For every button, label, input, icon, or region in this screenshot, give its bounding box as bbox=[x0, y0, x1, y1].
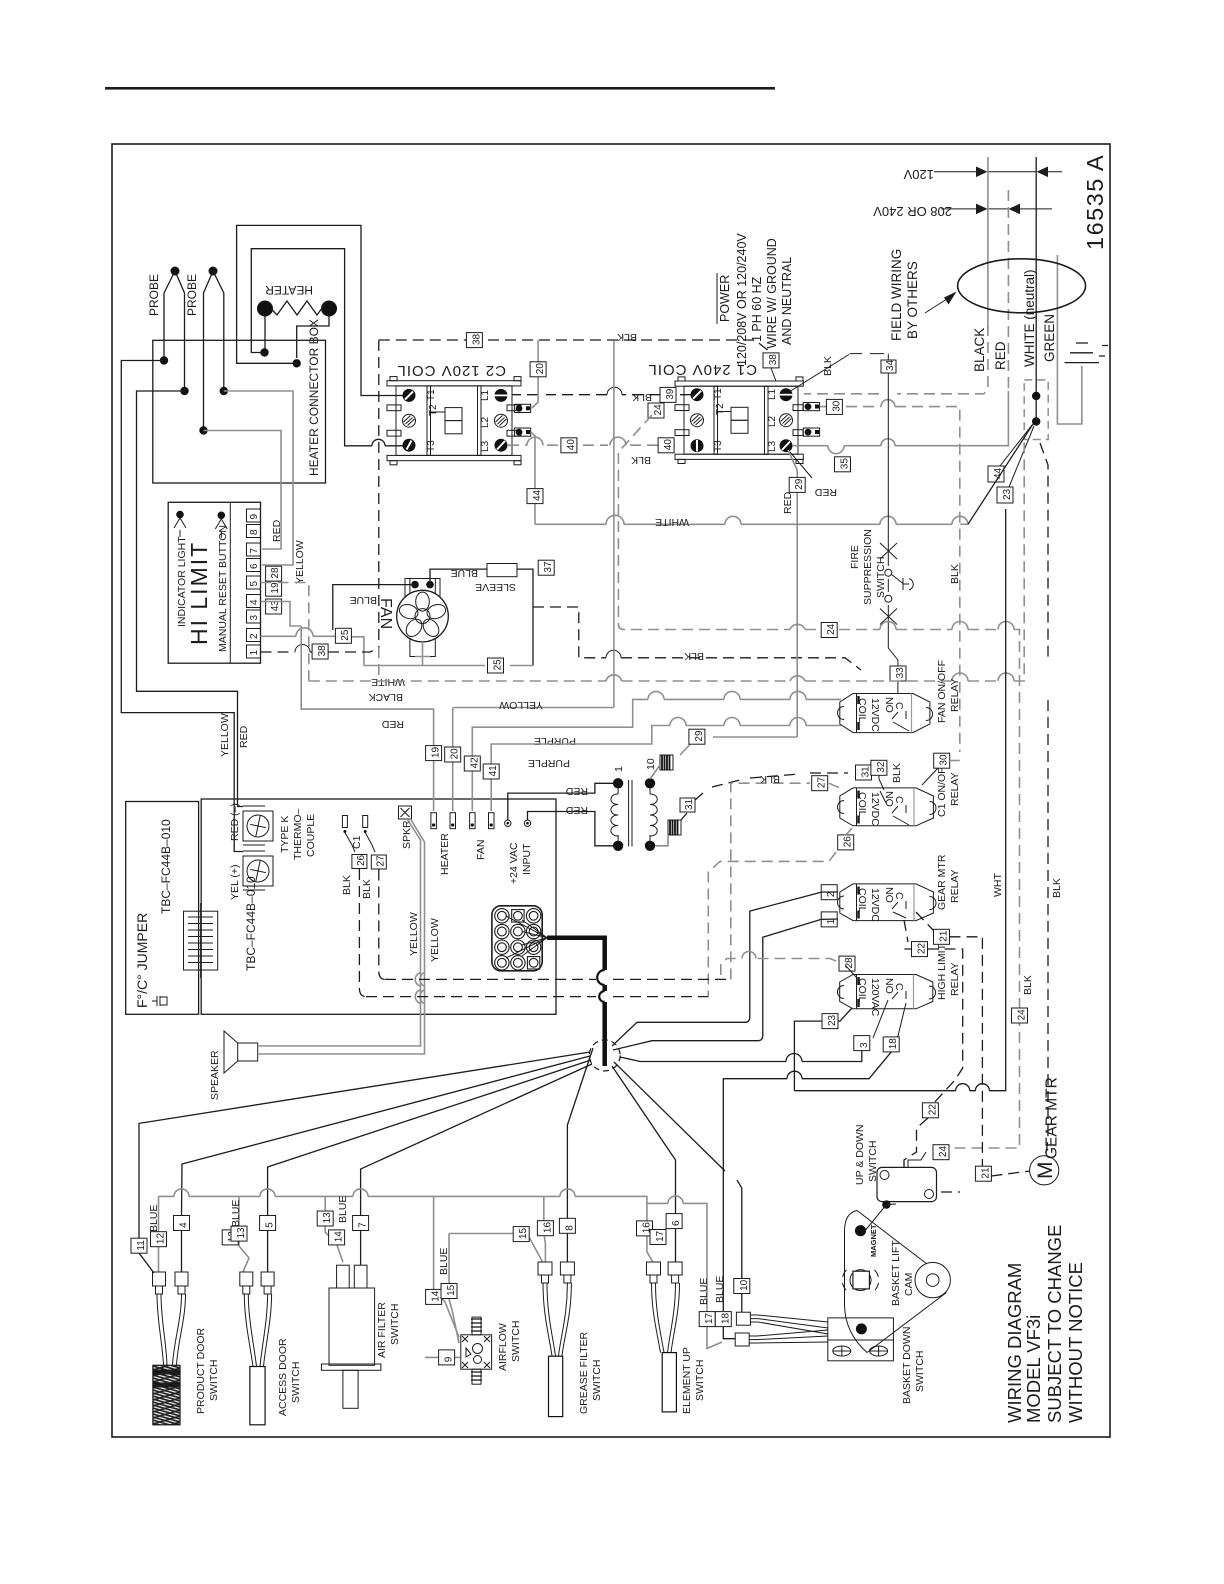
svg-text:SPEAKER: SPEAKER bbox=[209, 1050, 221, 1100]
node probe1 left junction bbox=[160, 356, 168, 364]
wire 44 from C2 coil B down to white run bbox=[531, 432, 535, 524]
svg-text:26: 26 bbox=[843, 836, 854, 848]
svg-text:7: 7 bbox=[249, 548, 260, 554]
title rule bbox=[105, 87, 775, 90]
svg-text:10: 10 bbox=[739, 1279, 750, 1291]
svg-text:RELAY: RELAY bbox=[949, 678, 961, 712]
tag 28 bbox=[266, 566, 282, 581]
wire red 24vac A to transformer bbox=[508, 783, 613, 820]
title block text bbox=[1004, 1225, 1086, 1423]
tag 38 at hi limit bbox=[312, 644, 328, 659]
svg-text:9: 9 bbox=[249, 514, 260, 520]
grease filter switch bbox=[537, 1196, 603, 1416]
wire field white vertical bbox=[1035, 157, 1037, 396]
wire 30 dashed from C1 coil A to BLK vertical bbox=[820, 407, 960, 752]
connector fan-in lines bbox=[506, 916, 547, 958]
svg-text:35: 35 bbox=[840, 458, 851, 470]
tag 41 bbox=[483, 764, 499, 779]
contactor C2 120V COIL bbox=[387, 362, 531, 465]
svg-text:FIRE: FIRE bbox=[849, 545, 861, 569]
wire fan blue right through sleeve to 37 bbox=[430, 569, 533, 665]
ray wire 8 bbox=[567, 1048, 593, 1218]
probe P1 bbox=[147, 267, 185, 392]
node neutral dot 2 bbox=[1032, 417, 1040, 425]
contactor C1 240V COIL bbox=[647, 361, 819, 464]
svg-text:WHITE (neutral): WHITE (neutral) bbox=[1022, 269, 1037, 367]
ray wire 5 bbox=[268, 1060, 591, 1215]
fuse block A bbox=[650, 755, 673, 779]
svg-text:FAN: FAN bbox=[377, 598, 394, 629]
wire 3 to hub run bbox=[802, 1051, 862, 1062]
reset button symbol bbox=[218, 512, 226, 520]
node heater-left junction bbox=[260, 348, 268, 356]
air filter switch bbox=[317, 1196, 401, 1409]
svg-text:SWITCH: SWITCH bbox=[914, 1351, 926, 1392]
svg-text:30: 30 bbox=[939, 754, 950, 766]
svg-text:FAN ON/OFF: FAN ON/OFF bbox=[936, 660, 948, 723]
svg-text:BLUE: BLUE bbox=[698, 1278, 710, 1305]
svg-text:SUPPRESSION: SUPPRESSION bbox=[862, 529, 874, 605]
wire 32 to relay NO bbox=[879, 775, 884, 790]
wire 28 into coil bbox=[846, 966, 856, 977]
svg-text:SWITCH: SWITCH bbox=[208, 1360, 220, 1401]
svg-text:18: 18 bbox=[888, 1038, 899, 1050]
svg-text:ELEMENT UP: ELEMENT UP bbox=[681, 1347, 693, 1414]
svg-text:17: 17 bbox=[655, 1230, 666, 1242]
wire 19 pin column bbox=[433, 761, 435, 811]
svg-text:29: 29 bbox=[694, 730, 705, 742]
terminal 3 bbox=[247, 610, 261, 623]
svg-text:BY OTHERS: BY OTHERS bbox=[905, 261, 920, 339]
ray wire 4 bbox=[182, 1056, 591, 1215]
svg-text:4 WIRE W/ GROUND: 4 WIRE W/ GROUND bbox=[765, 238, 779, 359]
svg-text:WHT: WHT bbox=[992, 873, 1004, 897]
svg-text:3: 3 bbox=[249, 615, 260, 621]
svg-text:POWER: POWER bbox=[718, 275, 732, 322]
thick harness wire bbox=[547, 938, 605, 1066]
controller board box bbox=[201, 799, 556, 1014]
svg-text:AIR FILTER: AIR FILTER bbox=[376, 1302, 388, 1358]
svg-text:12VDC: 12VDC bbox=[869, 888, 881, 922]
wire 2 from hub bbox=[745, 892, 838, 1022]
tag 20 bbox=[445, 747, 461, 762]
svg-text:L2: L2 bbox=[767, 415, 778, 427]
tag 38 to C1 T1 leader bbox=[763, 353, 779, 368]
svg-text:C: C bbox=[893, 702, 905, 710]
svg-text:24: 24 bbox=[1017, 1009, 1028, 1021]
svg-text:28: 28 bbox=[844, 957, 855, 969]
svg-text:33: 33 bbox=[895, 667, 906, 679]
svg-text:13: 13 bbox=[236, 1227, 247, 1239]
svg-text:SWITCH: SWITCH bbox=[875, 557, 887, 598]
svg-text:RED: RED bbox=[782, 491, 794, 514]
ray wire 2 bbox=[612, 1022, 745, 1046]
svg-text:PROBE: PROBE bbox=[147, 274, 161, 316]
terminal 4 bbox=[247, 595, 261, 608]
svg-text:BLK: BLK bbox=[760, 773, 780, 785]
tag 2 at gear relay bbox=[821, 885, 837, 900]
wire heater left leg to inner loop junction bbox=[264, 316, 266, 353]
tag 25 at hi limit bbox=[335, 628, 351, 643]
svg-text:40: 40 bbox=[566, 439, 577, 451]
switch C1 contacts on board bbox=[342, 816, 375, 853]
wire dashed bus 958 to tag 28 bbox=[721, 959, 841, 976]
svg-text:14: 14 bbox=[334, 1231, 345, 1243]
svg-text:28: 28 bbox=[270, 567, 281, 579]
svg-text:BLK: BLK bbox=[631, 454, 651, 466]
svg-text:38: 38 bbox=[471, 333, 482, 345]
svg-text:34: 34 bbox=[885, 359, 896, 371]
svg-text:F°/C° JUMPER: F°/C° JUMPER bbox=[134, 913, 150, 1008]
svg-text:30: 30 bbox=[831, 400, 842, 412]
svg-text:SWITCH: SWITCH bbox=[591, 1360, 603, 1401]
svg-text:6: 6 bbox=[671, 1220, 682, 1226]
svg-text:27: 27 bbox=[375, 855, 386, 867]
svg-text:BLK: BLK bbox=[1022, 975, 1034, 995]
svg-text:YELLOW: YELLOW bbox=[294, 540, 306, 584]
svg-text:RED: RED bbox=[565, 804, 588, 816]
node neutral dot 1 bbox=[1032, 392, 1040, 400]
label +24 VAC INPUT bbox=[508, 842, 533, 884]
field wiring ellipse bbox=[958, 259, 1086, 313]
wire C2 coil A up to bus38 tag 20 bbox=[532, 340, 538, 408]
tag 21 at motor bbox=[975, 1166, 991, 1181]
svg-text:BLK: BLK bbox=[632, 391, 652, 403]
basket connector 2 bbox=[735, 1330, 828, 1346]
tag 21 at gear relay bbox=[934, 929, 950, 944]
tag 18 at high limit relay bbox=[883, 1037, 899, 1052]
svg-text:12VDC: 12VDC bbox=[869, 698, 881, 732]
svg-text:44: 44 bbox=[532, 489, 543, 501]
speaker bbox=[209, 1031, 258, 1100]
tag 43 bbox=[266, 599, 282, 614]
pin spade C1 coil B bbox=[803, 428, 819, 436]
wire heater right leg bbox=[297, 316, 329, 358]
tag 27 at C1 relay bbox=[812, 776, 828, 791]
svg-text:SWITCH: SWITCH bbox=[389, 1304, 401, 1345]
svg-text:SUBJECT TO CHANGE: SUBJECT TO CHANGE bbox=[1044, 1225, 1065, 1423]
svg-text:31: 31 bbox=[684, 798, 695, 810]
svg-text:RED: RED bbox=[993, 341, 1008, 370]
label 208 OR 240V with arrows bbox=[873, 204, 1052, 219]
basket connector 1 bbox=[736, 1312, 828, 1334]
svg-text:L3: L3 bbox=[480, 440, 491, 452]
svg-text:GREASE FILTER: GREASE FILTER bbox=[578, 1332, 590, 1414]
tag 27 bbox=[371, 855, 386, 869]
svg-text:39: 39 bbox=[665, 388, 676, 400]
svg-text:BASKET DOWN: BASKET DOWN bbox=[901, 1327, 913, 1404]
svg-text:29: 29 bbox=[794, 478, 805, 490]
svg-text:BLUE: BLUE bbox=[714, 1276, 726, 1303]
svg-text:PRODUCT DOOR: PRODUCT DOOR bbox=[195, 1327, 207, 1414]
svg-text:RELAY: RELAY bbox=[949, 962, 961, 996]
tag 29 at transformer bbox=[689, 729, 705, 744]
svg-text:BLK: BLK bbox=[1051, 878, 1063, 898]
connector 12pin bbox=[492, 906, 547, 971]
svg-text:16535: 16535 bbox=[1082, 177, 1108, 250]
access door switch bbox=[222, 1196, 302, 1424]
wire dashed from black field to C1 bbox=[804, 325, 988, 394]
resistor SLEEVE bbox=[475, 564, 517, 594]
tag 17 on wire to basket bbox=[699, 1312, 715, 1327]
tag 22 at gear relay bbox=[912, 942, 928, 957]
wire probe2 left to HI LIMIT red run bbox=[204, 431, 282, 550]
svg-text:24: 24 bbox=[653, 404, 664, 416]
ray wire 7 bbox=[361, 1064, 592, 1215]
element up switch bbox=[637, 1196, 723, 1414]
svg-text:COIL: COIL bbox=[856, 792, 868, 817]
svg-text:9: 9 bbox=[444, 1356, 455, 1362]
svg-text:BASKET LIFT: BASKET LIFT bbox=[890, 1240, 902, 1306]
svg-text:GEAR MTR: GEAR MTR bbox=[936, 854, 948, 910]
svg-text:2: 2 bbox=[249, 633, 260, 639]
tag 24 on bus bbox=[821, 623, 837, 638]
wire 31 dashed to C1 relay bbox=[681, 773, 848, 820]
svg-text:MANUAL RESET BUTTON: MANUAL RESET BUTTON bbox=[217, 525, 229, 652]
relay FAN ON/OFF bbox=[838, 660, 962, 733]
heater resistor bbox=[257, 283, 337, 317]
svg-text:T3: T3 bbox=[713, 440, 724, 452]
svg-text:10: 10 bbox=[645, 758, 657, 770]
wire dashed 40 C2 L3 to C1 T3 bbox=[508, 437, 691, 466]
svg-text:12: 12 bbox=[156, 1233, 167, 1245]
svg-text:A: A bbox=[1082, 155, 1108, 171]
svg-text:HEATER: HEATER bbox=[265, 283, 313, 297]
tag 24 at up down switch bbox=[908, 1152, 926, 1167]
pin spade C2 coil A bbox=[514, 404, 530, 412]
svg-text:BLACK: BLACK bbox=[369, 691, 403, 703]
svg-text:26: 26 bbox=[356, 854, 367, 866]
svg-text:15: 15 bbox=[518, 1227, 529, 1239]
tag 44 leader to neutral bbox=[988, 425, 1032, 482]
tag 24 on vertical bbox=[1012, 1008, 1028, 1023]
thermocouple terminal minus bbox=[229, 803, 273, 845]
gear motor bbox=[1030, 1077, 1061, 1185]
tag 35 bbox=[835, 457, 851, 472]
label 16535 A bbox=[1082, 155, 1108, 250]
wire dashed black bus 681 bbox=[309, 442, 1024, 681]
thermocouple terminal plus bbox=[229, 851, 273, 900]
ground symbol bbox=[1065, 343, 1109, 363]
heater connector box bbox=[153, 319, 326, 483]
svg-text:HEATER: HEATER bbox=[439, 833, 451, 875]
product door switch bbox=[131, 1196, 220, 1434]
svg-text:25: 25 bbox=[493, 659, 504, 671]
svg-text:16: 16 bbox=[542, 1222, 553, 1234]
tag 22 at up down switch bbox=[922, 1103, 938, 1118]
svg-text:5: 5 bbox=[265, 1222, 276, 1228]
wire 41 pin column bbox=[490, 779, 492, 811]
svg-text:BLK: BLK bbox=[949, 564, 961, 584]
svg-text:YELLOW: YELLOW bbox=[408, 912, 420, 956]
wire yellow run bbox=[455, 707, 614, 709]
svg-text:FAN: FAN bbox=[475, 840, 487, 860]
svg-text:24: 24 bbox=[938, 1146, 949, 1158]
svg-text:T3: T3 bbox=[426, 440, 437, 452]
svg-text:208 OR 240V: 208 OR 240V bbox=[873, 204, 952, 219]
svg-text:C1 ON/OFF: C1 ON/OFF bbox=[936, 761, 948, 817]
svg-text:RED: RED bbox=[271, 519, 283, 542]
tag 29 at C1 bbox=[789, 477, 805, 492]
svg-text:BLK: BLK bbox=[684, 650, 704, 662]
indicator light symbol bbox=[176, 511, 184, 519]
dashed bus B bbox=[366, 996, 708, 998]
wire probe2 right yellow to HI LIMIT t6 bbox=[224, 391, 293, 565]
svg-text:21: 21 bbox=[980, 1167, 991, 1179]
wire hi limit t1 dashed to bus 38 bbox=[261, 648, 379, 652]
svg-text:C: C bbox=[893, 983, 905, 991]
jumper pin header bbox=[184, 903, 218, 978]
wire 29 red from C1 L3 down bbox=[680, 450, 797, 755]
tag 23 leader to neutral bbox=[997, 426, 1034, 503]
wire purple 1 bbox=[472, 699, 841, 756]
relay HIGH LIMIT bbox=[838, 943, 962, 1040]
wire probe red to thermocouple minus bbox=[137, 391, 244, 807]
svg-text:13: 13 bbox=[322, 1212, 333, 1224]
gray bottom bus bbox=[159, 1196, 653, 1262]
ray wire 6 bbox=[612, 1066, 676, 1215]
svg-text:120/208V OR 120/240V: 120/208V OR 120/240V bbox=[735, 233, 749, 366]
tag 31 at transformer bbox=[680, 798, 695, 812]
neutral junction dashed box bbox=[1024, 380, 1048, 440]
pin SPKR bbox=[399, 806, 414, 849]
dashed bus A bbox=[385, 978, 731, 980]
pin 24VAC B bbox=[524, 820, 530, 826]
basket lift cam bbox=[842, 1211, 950, 1353]
svg-text:31: 31 bbox=[861, 766, 872, 778]
wire 27 dashed down bbox=[379, 870, 385, 980]
svg-text:41: 41 bbox=[488, 765, 499, 777]
svg-text:HEATER CONNECTOR BOX: HEATER CONNECTOR BOX bbox=[307, 319, 321, 476]
svg-text:BLUE: BLUE bbox=[350, 594, 377, 606]
terminal 6 bbox=[247, 559, 261, 572]
wire field red vertical dashed bbox=[1007, 190, 1009, 391]
fuse block B bbox=[655, 820, 681, 846]
svg-text:RED: RED bbox=[565, 785, 588, 797]
svg-text:23: 23 bbox=[827, 1014, 838, 1026]
svg-text:120VAC: 120VAC bbox=[869, 978, 881, 1017]
svg-text:RED (–): RED (–) bbox=[229, 803, 241, 841]
wire 35 gray from C1 L3 to red field vertical bbox=[793, 391, 1008, 446]
tag 26 bbox=[352, 854, 367, 868]
svg-text:12VDC: 12VDC bbox=[869, 792, 881, 826]
wire red run to pin 19 bbox=[301, 626, 433, 746]
tag 18 on wire to basket bbox=[715, 1312, 731, 1327]
svg-text:L1: L1 bbox=[480, 389, 491, 401]
svg-text:17: 17 bbox=[704, 1312, 715, 1324]
svg-text:L1: L1 bbox=[767, 388, 778, 400]
wire hi limit t5 dashed drop to bus 24 bbox=[261, 583, 309, 682]
svg-text:BLK: BLK bbox=[361, 879, 373, 899]
svg-text:1 PH 60 HZ: 1 PH 60 HZ bbox=[750, 276, 764, 342]
wire fan white bottom bbox=[364, 642, 533, 666]
wire 34 from C1 L1 to fire suppression bbox=[789, 354, 896, 510]
svg-text:L3: L3 bbox=[767, 440, 778, 452]
ray wire 3 east bbox=[620, 1057, 786, 1062]
wire dashed bus 38 vertical bbox=[378, 340, 380, 647]
svg-text:COIL: COIL bbox=[856, 698, 868, 723]
terminal 9 bbox=[247, 509, 261, 522]
svg-text:SWITCH: SWITCH bbox=[694, 1360, 706, 1401]
svg-text:8: 8 bbox=[249, 529, 260, 535]
svg-text:1: 1 bbox=[249, 650, 260, 656]
svg-text:SLEEVE: SLEEVE bbox=[475, 581, 516, 593]
wire hi limit t2 to tag 25 bbox=[261, 636, 364, 665]
transformer T1 bbox=[611, 758, 657, 851]
pin spade C2 coil B bbox=[514, 428, 530, 436]
wire 42 pin column bbox=[471, 771, 473, 811]
svg-text:YELLOW: YELLOW bbox=[429, 918, 441, 962]
svg-text:BLK: BLK bbox=[617, 331, 637, 343]
svg-text:120V: 120V bbox=[903, 167, 934, 182]
svg-text:HI LIMIT: HI LIMIT bbox=[186, 541, 212, 645]
wire 21 dashed from gear relay bbox=[916, 912, 982, 1160]
wire 37 dashed to fan relay bbox=[533, 607, 861, 670]
svg-text:BLUE: BLUE bbox=[230, 1200, 242, 1227]
svg-text:37: 37 bbox=[543, 561, 554, 573]
svg-text:RED: RED bbox=[381, 718, 404, 730]
wire dashed bus 24 bbox=[618, 415, 1019, 1148]
svg-text:HIGH LIMIT: HIGH LIMIT bbox=[936, 943, 948, 1000]
svg-text:BLUE: BLUE bbox=[148, 1205, 160, 1232]
svg-text:1: 1 bbox=[613, 766, 625, 772]
relay GEAR MTR bbox=[838, 854, 962, 922]
svg-text:SWITCH: SWITCH bbox=[510, 1321, 522, 1362]
svg-text:GREEN: GREEN bbox=[1042, 314, 1057, 362]
tag 20 bbox=[530, 362, 546, 377]
wire 27 dashed bbox=[731, 783, 842, 979]
svg-text:4: 4 bbox=[249, 599, 260, 605]
wire 18 down to basket bbox=[723, 1052, 891, 1311]
svg-text:YELLOW: YELLOW bbox=[219, 713, 231, 757]
terminal 5 bbox=[247, 576, 261, 589]
relay C1 ON/OFF bbox=[838, 761, 962, 826]
terminal 7 bbox=[247, 543, 261, 556]
tag 30 at C1 relay bbox=[934, 753, 950, 768]
wire probe yellow to thermocouple plus bbox=[121, 361, 243, 852]
wire fire to fan relay with tag 33 bbox=[888, 630, 898, 694]
ray wire 11 bbox=[139, 1052, 590, 1240]
svg-text:THERMO–: THERMO– bbox=[292, 809, 304, 860]
wire 26 dashed bbox=[708, 828, 852, 997]
svg-text:C: C bbox=[893, 796, 905, 804]
svg-text:M: M bbox=[1034, 1162, 1057, 1180]
pin HEATER B bbox=[450, 813, 456, 829]
svg-text:BLK: BLK bbox=[891, 763, 903, 783]
tag 1 at gear relay bbox=[821, 912, 837, 927]
F/C jumper box bbox=[126, 802, 199, 1015]
svg-text:SWITCH: SWITCH bbox=[867, 1141, 879, 1182]
pin FAN B bbox=[489, 813, 495, 829]
svg-text:T2: T2 bbox=[428, 404, 439, 416]
wire white diagonal to neutral dot2 bbox=[968, 424, 1033, 524]
wire dashed bus 38 horizontal bbox=[379, 340, 770, 352]
svg-text:WHITE: WHITE bbox=[371, 676, 405, 688]
wire fan blue left to tag 25 bbox=[333, 585, 415, 630]
wire 23 from relay coil bbox=[794, 509, 1005, 1091]
svg-text:MODEL VF3i: MODEL VF3i bbox=[1023, 1315, 1044, 1423]
pin 24VAC A bbox=[505, 820, 511, 826]
svg-text:BLUE: BLUE bbox=[337, 1196, 349, 1223]
HI LIMIT box bbox=[168, 502, 260, 663]
svg-text:11: 11 bbox=[136, 1240, 147, 1251]
wire 1 from hub bbox=[758, 919, 838, 1041]
tag 42 bbox=[464, 756, 480, 771]
fan motor bbox=[377, 579, 448, 657]
tag 19 bbox=[266, 581, 282, 596]
svg-text:C: C bbox=[893, 892, 905, 900]
svg-text:YEL (+): YEL (+) bbox=[229, 865, 241, 901]
